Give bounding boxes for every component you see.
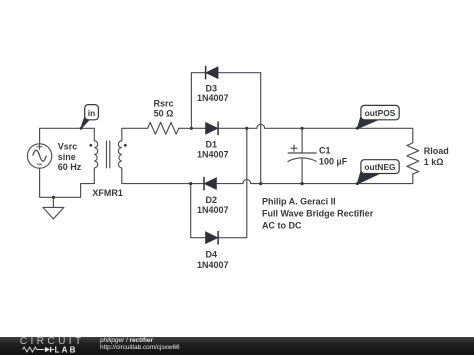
wire source top to transformer primary: [40, 128, 95, 144]
svg-text:1N4007: 1N4007: [197, 205, 229, 215]
wire hop over D3 vertical on top rail: [257, 124, 265, 128]
svg-text:1N4007: 1N4007: [197, 149, 229, 159]
flag outPOS: [356, 105, 399, 129]
svg-text:C1: C1: [319, 146, 331, 156]
svg-text:D3: D3: [206, 84, 218, 94]
wire D3 anode to right vertical down to bottom rail: [218, 73, 260, 184]
svg-text:outNEG: outNEG: [364, 162, 395, 172]
voltage source plus sign: [37, 144, 43, 150]
svg-text:sine: sine: [58, 152, 76, 162]
wire D1 cathode to hop: [218, 127, 256, 129]
svg-text:1 kΩ: 1 kΩ: [424, 157, 444, 167]
svg-text:XFMR1: XFMR1: [92, 188, 123, 198]
node D3 bottom rail junction: [259, 182, 262, 185]
svg-text:D2: D2: [206, 195, 218, 205]
svg-text:60 Hz: 60 Hz: [58, 162, 82, 172]
svg-text:1N4007: 1N4007: [197, 93, 229, 103]
svg-text:Philip A. Geraci II: Philip A. Geraci II: [262, 197, 336, 207]
transformer primary phase dot: [89, 144, 92, 147]
voltage source Vsrc circle: [27, 144, 51, 168]
node D4 top rail junction: [245, 127, 248, 130]
resistor Rsrc zigzag: [148, 122, 179, 134]
capacitor C1 plus sign: [291, 145, 297, 151]
wire Rload bottom to bottom rail: [251, 174, 413, 184]
diode D1: [206, 122, 219, 136]
wire bottom rail D2 cathode side: [217, 183, 243, 185]
svg-text:D4: D4: [206, 249, 218, 259]
capacitor C1 bottom lead: [301, 158, 303, 183]
svg-text:1N4007: 1N4007: [197, 260, 229, 270]
svg-text:Full Wave Bridge Rectifier: Full Wave Bridge Rectifier: [262, 209, 374, 219]
svg-text:100 µF: 100 µF: [319, 157, 348, 167]
capacitor C1 curved bottom plate: [288, 158, 316, 162]
svg-text:Rload: Rload: [424, 146, 449, 156]
voltage source sine symbol: [33, 150, 47, 161]
svg-text:in: in: [88, 108, 95, 118]
flag in: [80, 105, 99, 130]
node Rsrc/D1/D3 junction: [190, 127, 193, 130]
CircuitLab logo text CIRCUIT: [20, 336, 85, 347]
capacitor C1 top lead: [301, 128, 303, 153]
transformer secondary phase dot: [124, 144, 127, 147]
flag outNEG: [356, 160, 399, 185]
footer text philipger / rectifier: [100, 337, 153, 344]
svg-text:Rsrc: Rsrc: [153, 98, 173, 108]
wire D4 cathode to right vertical up to top rail: [218, 128, 246, 237]
svg-text:D1: D1: [206, 139, 218, 149]
wire D3 branch left vertical: [191, 73, 205, 129]
transformer XFMR1 primary winding: [94, 141, 97, 168]
node ground junction: [52, 196, 55, 199]
junction node dots: [52, 127, 304, 199]
diode D4: [206, 231, 219, 245]
wire top rail to Rload: [265, 128, 413, 143]
wire secondary top to Rsrc: [122, 128, 148, 141]
svg-text:LAB: LAB: [55, 346, 78, 354]
transformer XFMR1 secondary winding: [118, 141, 121, 168]
capacitor C1 top plate: [288, 152, 316, 154]
CircuitLab logo schematic line with resistor, diode and LAB: [21, 346, 91, 354]
svg-text:AC to DC: AC to DC: [262, 220, 302, 230]
wire source bottom to ground node: [40, 168, 95, 197]
node secondary/D2/D4 junction: [189, 182, 192, 185]
voltage source minus sign: [37, 163, 42, 165]
diode D3: [206, 66, 218, 80]
ground symbol triangle: [43, 207, 64, 219]
svg-text:outPOS: outPOS: [365, 108, 396, 118]
wire D4 branch left vertical: [191, 184, 206, 238]
wire hop over D4 vertical on bottom rail: [243, 180, 251, 184]
node C1 top junction: [301, 127, 304, 130]
svg-text:50 Ω: 50 Ω: [154, 108, 174, 118]
wire Rsrc to D1 anode: [179, 127, 206, 129]
diode D2: [204, 177, 216, 191]
resistor Rload zigzag: [407, 143, 419, 174]
svg-text:Vsrc: Vsrc: [58, 142, 78, 152]
transformer XFMR1 core lines: [107, 141, 110, 169]
node C1 bottom junction: [301, 182, 304, 185]
footer bar: [0, 337, 474, 355]
wire secondary bottom to D2: [122, 168, 204, 184]
wire ground stem: [52, 197, 54, 207]
footer url: [100, 344, 180, 351]
